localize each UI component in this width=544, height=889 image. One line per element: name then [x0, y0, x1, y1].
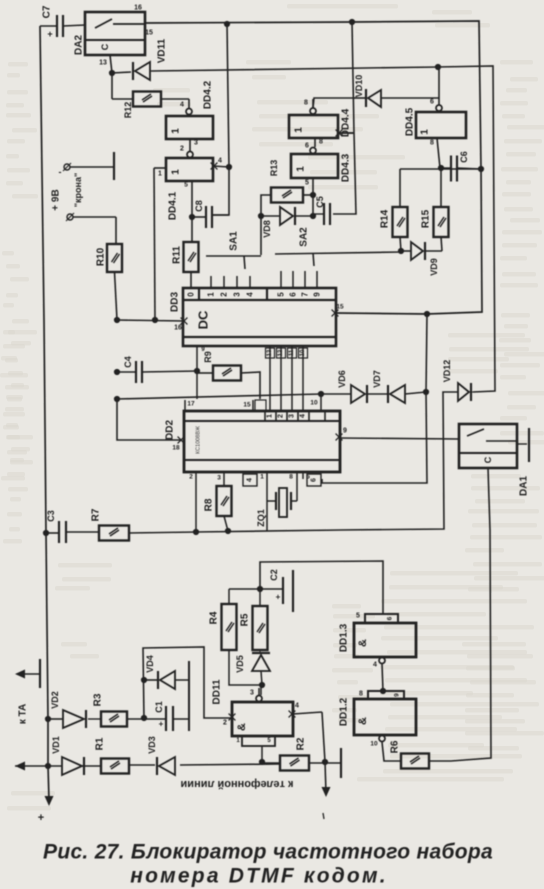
junction dots oscillator — [258, 192, 316, 219]
terminal common arrow — [322, 762, 331, 819]
svg-text:8: 8 — [304, 100, 308, 107]
resistor R9 — [197, 351, 266, 411]
svg-text:DC: DC — [196, 310, 211, 329]
svg-text:15: 15 — [145, 30, 153, 37]
diode VD7 — [367, 370, 426, 403]
svg-text:3: 3 — [194, 140, 198, 147]
resistor R2 — [262, 737, 309, 770]
svg-text:R7: R7 — [91, 508, 102, 521]
svg-text:6: 6 — [305, 143, 309, 150]
svg-text:C: C — [483, 456, 493, 463]
diode VD11 — [112, 38, 168, 80]
logic gate DD4.4 — [289, 99, 354, 150]
diode VD6 — [321, 370, 367, 403]
resistor R4 — [209, 589, 263, 685]
decoder DD3 — [170, 271, 344, 371]
logic gate DD4.5 — [405, 67, 467, 168]
capacitor C7 — [40, 5, 85, 39]
terminal line minus arrow — [15, 762, 25, 771]
svg-text:15: 15 — [243, 402, 251, 409]
resistor R6 — [390, 740, 430, 768]
svg-text:9: 9 — [394, 693, 401, 697]
svg-text:VD3: VD3 — [147, 736, 157, 754]
svg-text:0: 0 — [187, 292, 196, 297]
svg-text:R4: R4 — [209, 611, 220, 624]
svg-text:C2: C2 — [269, 569, 279, 581]
svg-text:8: 8 — [319, 139, 323, 146]
svg-text:18: 18 — [172, 445, 180, 452]
svg-text:6: 6 — [289, 292, 298, 297]
junction dots right — [398, 165, 484, 317]
wire C2 to DD1.3 — [260, 561, 383, 614]
svg-text:к телефонной линии: к телефонной линии — [181, 778, 294, 790]
svg-text:VD12: VD12 — [442, 360, 452, 383]
svg-text:R10: R10 — [96, 247, 107, 266]
svg-text:R3: R3 — [93, 693, 104, 706]
svg-text:Рис. 27. Блокиратор частотного: Рис. 27. Блокиратор частотного набора — [43, 841, 493, 864]
svg-text:1: 1 — [294, 127, 305, 133]
svg-text:C8: C8 — [194, 200, 204, 212]
capacitor C2 — [260, 569, 293, 612]
capacitor C5 — [313, 196, 330, 225]
svg-text:DD4.5: DD4.5 — [405, 107, 416, 136]
wire DD11 out drop — [322, 712, 325, 762]
resistor R8 — [204, 486, 232, 531]
junction dots VD6 row — [318, 389, 429, 397]
svg-text:C5: C5 — [315, 196, 325, 208]
capacitor C4 — [117, 356, 197, 383]
svg-text:2: 2 — [223, 720, 227, 727]
junction dots bottom mid — [257, 586, 265, 688]
wire DD4.1 input drop — [154, 168, 155, 320]
svg-text:"крона": "крона" — [73, 173, 83, 207]
diode VD12 — [442, 360, 473, 401]
svg-text:VD9: VD9 — [429, 258, 439, 276]
svg-text:1: 1 — [207, 292, 216, 297]
wire DD2 pin9 to DA1 — [340, 438, 459, 439]
svg-text:VD6: VD6 — [337, 370, 347, 388]
svg-text:8: 8 — [430, 140, 434, 147]
svg-text:3: 3 — [217, 475, 221, 482]
svg-text:2: 2 — [278, 414, 285, 418]
svg-text:1: 1 — [267, 414, 274, 418]
svg-text:4: 4 — [295, 703, 299, 710]
svg-text:+ 9В: + 9В — [51, 189, 62, 210]
svg-text:2: 2 — [220, 292, 229, 297]
junction dot DD1.2 in — [380, 688, 386, 694]
svg-text:4: 4 — [247, 478, 254, 482]
wire oscillator vertical x353 — [333, 22, 356, 214]
svg-text:5: 5 — [356, 613, 360, 620]
svg-text:DD11: DD11 — [212, 679, 223, 704]
label telephone line — [181, 778, 294, 790]
diode VD9 — [401, 242, 442, 276]
svg-text:4: 4 — [218, 158, 222, 165]
svg-text:4: 4 — [300, 414, 307, 418]
relay DA2 — [74, 5, 153, 74]
wire C6 branch — [400, 168, 481, 170]
svg-text:C7: C7 — [42, 5, 53, 18]
svg-text:C: C — [100, 43, 110, 50]
svg-text:+: + — [38, 812, 44, 824]
svg-text:R6: R6 — [390, 740, 401, 753]
svg-text:+: + — [276, 593, 281, 602]
svg-text:13: 13 — [99, 60, 107, 67]
resistor R7 — [91, 508, 197, 540]
resistor R10 — [96, 244, 123, 320]
svg-text:номера DTMF кодом.: номера DTMF кодом. — [130, 865, 387, 888]
wires DD3 outputs to DD2 — [266, 346, 308, 411]
wire DD4.2 feedback vertical — [213, 24, 229, 215]
resistor R13 — [261, 160, 313, 255]
svg-text:R11: R11 — [172, 246, 183, 264]
svg-text:R15: R15 — [421, 209, 432, 228]
wire line sense riser — [143, 647, 231, 719]
svg-text:VD2: VD2 — [50, 691, 60, 709]
diode VD10 — [313, 75, 439, 108]
logic gate DD11 — [212, 679, 323, 762]
svg-text:13: 13 — [267, 349, 273, 356]
svg-text:2: 2 — [180, 146, 184, 153]
junction dots R2 — [259, 759, 328, 765]
svg-text:VD5: VD5 — [235, 655, 245, 673]
svg-text:VD10: VD10 — [354, 75, 364, 98]
resistor R5 — [240, 589, 268, 650]
resistor R3 — [93, 693, 145, 726]
wire top positive rail — [145, 21, 482, 314]
terminal to TA — [15, 659, 40, 724]
svg-text:10: 10 — [370, 741, 378, 748]
wire telephone line bus — [15, 763, 341, 766]
diode VD3 — [147, 736, 175, 775]
logic gate DD4.2 — [166, 80, 214, 152]
svg-text:-: - — [59, 167, 62, 177]
svg-text:4: 4 — [373, 662, 377, 669]
wire left supply rail — [40, 26, 49, 800]
svg-text:7: 7 — [301, 292, 310, 297]
svg-text:1: 1 — [260, 474, 264, 481]
svg-text:1: 1 — [171, 169, 182, 175]
svg-text:КС1008ВЖ: КС1008ВЖ — [196, 426, 202, 454]
svg-text:SA1: SA1 — [229, 231, 240, 251]
svg-text:6: 6 — [430, 99, 434, 106]
svg-text:DD4.4: DD4.4 — [341, 108, 352, 137]
resistor R1 — [95, 737, 130, 773]
svg-text:DA1: DA1 — [519, 476, 530, 496]
svg-text:4: 4 — [246, 292, 255, 297]
diode VD2 — [48, 691, 101, 728]
svg-text:SA2: SA2 — [299, 227, 310, 247]
svg-text:9: 9 — [343, 428, 347, 435]
svg-text:5: 5 — [277, 292, 286, 297]
svg-text:DD4.2: DD4.2 — [203, 80, 214, 109]
wire common bus — [196, 392, 458, 532]
logic gate DD4.3 — [291, 148, 352, 217]
junction dots bus — [43, 528, 231, 536]
svg-text:R2: R2 — [296, 737, 307, 750]
svg-text:5: 5 — [305, 180, 309, 187]
svg-text:VD8: VD8 — [262, 220, 272, 238]
svg-text:5: 5 — [184, 182, 188, 189]
resistor R15 — [421, 169, 449, 251]
svg-text:3: 3 — [250, 690, 254, 697]
terminal line plus arrow — [38, 796, 54, 824]
logic gate DD4.1 — [154, 152, 229, 221]
svg-text:9: 9 — [313, 292, 322, 297]
svg-text:4: 4 — [180, 102, 184, 109]
svg-text:&: & — [357, 717, 369, 725]
svg-text:3: 3 — [233, 292, 242, 297]
junction dots C4 — [114, 317, 200, 402]
svg-text:11: 11 — [289, 349, 295, 356]
wire DD2 input row — [117, 394, 321, 440]
junction dots line — [45, 677, 147, 769]
svg-text:DA2: DA2 — [74, 35, 85, 55]
svg-text:ZQ1: ZQ1 — [256, 509, 266, 527]
svg-text:C3: C3 — [46, 510, 56, 522]
svg-text:+: + — [47, 29, 52, 39]
resistor R14 — [380, 169, 408, 251]
svg-text:R5: R5 — [240, 613, 251, 626]
svg-text:3: 3 — [289, 414, 296, 418]
wire DD3 pin16 net — [117, 320, 184, 321]
svg-text:8: 8 — [289, 474, 293, 481]
logic gate DD1.2 — [339, 691, 417, 762]
wire DA1 output rail — [429, 468, 491, 761]
svg-text:8: 8 — [359, 691, 363, 698]
svg-text:C4: C4 — [123, 356, 133, 368]
svg-text:17: 17 — [187, 401, 195, 408]
svg-text:10: 10 — [300, 349, 306, 356]
svg-text:C1: C1 — [154, 701, 164, 713]
svg-text:6: 6 — [311, 478, 318, 482]
svg-text:DD1.3: DD1.3 — [339, 623, 350, 652]
capacitor C1 — [144, 701, 189, 731]
resistor R11 — [172, 217, 199, 288]
capacitor C8 — [192, 200, 229, 228]
battery GB1 krona 9V — [51, 152, 117, 244]
svg-text:10: 10 — [310, 400, 318, 407]
svg-text:DD2: DD2 — [165, 420, 176, 440]
svg-text:R9: R9 — [203, 351, 213, 363]
switch SA1 — [206, 231, 261, 269]
diode VD5 — [235, 650, 270, 695]
svg-text:&: & — [357, 639, 369, 647]
logic gate DD1.3 — [339, 613, 417, 692]
svg-text:R8: R8 — [204, 498, 215, 511]
diode VD8 — [261, 207, 313, 238]
svg-text:1: 1 — [171, 128, 182, 134]
terminal common bar — [340, 748, 342, 778]
resistor R12 — [112, 73, 189, 118]
svg-text:15: 15 — [336, 304, 344, 311]
wire VD6 junction riser — [322, 314, 427, 483]
svg-text:DD3: DD3 — [170, 292, 181, 312]
svg-text:6: 6 — [387, 616, 394, 620]
crystal ZQ1 — [256, 488, 297, 527]
svg-text:VD4: VD4 — [145, 655, 155, 673]
svg-text:16: 16 — [134, 5, 142, 12]
svg-text:C6: C6 — [459, 151, 469, 163]
svg-text:12: 12 — [278, 349, 284, 356]
diode VD1 — [51, 736, 84, 775]
svg-text:+: + — [159, 720, 164, 729]
svg-text:1: 1 — [158, 171, 162, 178]
svg-text:DD1.2: DD1.2 — [339, 697, 350, 726]
wire VD11 output rail — [152, 66, 495, 392]
svg-text:&: & — [236, 723, 248, 731]
svg-text:к ТА: к ТА — [18, 704, 29, 724]
capacitor C3 — [46, 510, 99, 543]
svg-text:R12: R12 — [123, 102, 133, 119]
svg-text:DD4.3: DD4.3 — [341, 153, 352, 182]
diode VD4 — [144, 655, 189, 689]
switch SA2 — [275, 227, 401, 266]
svg-text:1: 1 — [296, 166, 307, 172]
svg-text:R14: R14 — [380, 209, 391, 228]
capacitor C6 — [441, 151, 481, 181]
wire VD4 C1 common bar — [188, 661, 190, 731]
svg-text:R13: R13 — [269, 160, 279, 177]
opto DA1 — [459, 424, 530, 496]
junction dots top — [109, 19, 441, 220]
svg-text:1: 1 — [420, 129, 431, 135]
svg-text:16: 16 — [174, 325, 182, 332]
DTMF chip DD2 — [165, 411, 348, 532]
svg-text:VD1: VD1 — [51, 736, 61, 754]
svg-text:VD11: VD11 — [157, 38, 168, 63]
svg-text:R1: R1 — [95, 737, 106, 750]
svg-text:2: 2 — [189, 474, 193, 481]
svg-text:DD4.1: DD4.1 — [168, 191, 179, 220]
svg-text:VD7: VD7 — [372, 370, 382, 388]
